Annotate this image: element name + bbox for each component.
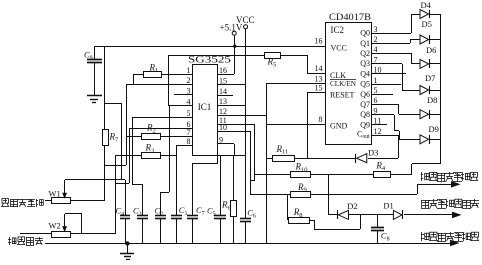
text duty cycle setting [2, 199, 9, 204]
ground (main) [125, 241, 129, 245]
wire Q2 to D6 [411, 53, 413, 64]
terminal VCC [244, 25, 248, 29]
text frequency setting [9, 237, 11, 245]
svg-text:CLK: CLK [330, 71, 346, 80]
svg-text:Q3: Q3 [360, 59, 370, 68]
svg-text:5: 5 [187, 109, 191, 118]
wire ground net vertical x=266.5 [266, 83, 268, 243]
wire pin15 lead to VCC vert [217, 84, 246, 86]
wire Q1 to D5 [410, 40, 412, 43]
svg-text:4: 4 [374, 45, 378, 54]
IC2 CD4017B body [326, 23, 372, 145]
wire R7 tap to C4 column [105, 103, 122, 105]
wire pin4 to oscillator top wire [168, 105, 192, 107]
pin 13 IC2 CLK/EN [266, 83, 325, 85]
diode D6 [411, 63, 420, 65]
svg-text:5: 5 [374, 86, 378, 95]
svg-text:Q2: Q2 [360, 49, 370, 58]
diode D4 [411, 14, 420, 16]
svg-text:D9: D9 [429, 124, 439, 134]
svg-text:4: 4 [187, 97, 191, 106]
wire R8 left up to pin11 net [287, 194, 289, 220]
op-amp U IC1 SG3525 body [193, 65, 218, 156]
wire Cout to D3 [398, 135, 400, 158]
pin 8 IC2 GND [266, 124, 325, 126]
svg-text:CLK/EN: CLK/EN [330, 80, 357, 88]
wire diode bus [440, 14, 442, 164]
wire pin3 stub [174, 94, 192, 96]
svg-text:14: 14 [315, 64, 323, 73]
svg-text:Q0: Q0 [360, 29, 370, 38]
wire W2 wiper loop [65, 213, 82, 215]
diode D2 [337, 210, 339, 219]
svg-text:SG3525: SG3525 [188, 56, 231, 66]
capacitor C4 [125, 180, 127, 215]
wire RESET vertical to D3 node [307, 92, 309, 158]
diode D7 [402, 90, 420, 92]
wire drive tap down to D2 row [328, 174, 330, 215]
pin 15 IC2 RESET [307, 92, 325, 94]
svg-text:IC1: IC1 [198, 102, 212, 112]
svg-text:VCC: VCC [331, 44, 347, 53]
wire pin13 lead to VCC vert [217, 105, 246, 107]
svg-text:2: 2 [187, 76, 191, 85]
wire pin6 RT [129, 128, 192, 130]
diode D1 [393, 210, 402, 219]
wire out1 riser [417, 184, 419, 194]
svg-text:1: 1 [187, 66, 191, 75]
wire pin12 ground lead [217, 115, 266, 117]
wire Q3 to D7 [402, 64, 404, 90]
wire ground rail out3 [45, 243, 451, 245]
svg-text:Q5: Q5 [360, 80, 370, 89]
svg-text:D5: D5 [422, 19, 432, 29]
svg-text:GND: GND [330, 121, 348, 130]
svg-text:Q8: Q8 [360, 110, 370, 119]
wire Q7 to D8 [398, 104, 400, 114]
wire pin9 lead [217, 143, 234, 145]
wire R5 to CLK [307, 55, 309, 73]
svg-text:7: 7 [187, 128, 191, 137]
svg-text:8: 8 [187, 137, 191, 146]
svg-text:Q1: Q1 [360, 39, 370, 48]
svg-text:2: 2 [374, 35, 378, 44]
wire R3/pin6 net down to W2 [115, 155, 117, 234]
wire pin2 long wire [126, 84, 192, 86]
wire R2 left col to 165 wire [126, 136, 128, 165]
pin 14 IC2 CLK [307, 73, 325, 75]
text out2 FET drain [421, 200, 423, 208]
wiper W2 [64, 214, 66, 227]
wire shelf below IC1 [217, 155, 246, 157]
junction +5.1V rail [233, 45, 236, 48]
svg-text:D3: D3 [368, 148, 378, 158]
wire pin2 net vertical x=126.5 [126, 84, 128, 165]
wire Q8 to D9 staircase [394, 115, 396, 131]
svg-text:6: 6 [374, 96, 378, 105]
svg-text:9: 9 [219, 135, 223, 144]
svg-text:Q7: Q7 [360, 100, 370, 109]
svg-text:13: 13 [315, 75, 323, 84]
text out3 FET gate drive [421, 232, 423, 241]
svg-text:12: 12 [374, 127, 382, 136]
svg-text:1: 1 [374, 76, 378, 85]
svg-text:D8: D8 [427, 95, 437, 105]
wire +5.1V vertical to rail and pin16 [234, 35, 236, 74]
svg-text:IC2: IC2 [331, 25, 345, 35]
capacitor C8 [377, 215, 379, 227]
svg-text:+5.1V: +5.1V [220, 23, 243, 33]
svg-text:8: 8 [319, 115, 323, 124]
svg-text:D2: D2 [347, 201, 357, 211]
svg-text:Q9: Q9 [360, 120, 370, 129]
svg-text:Q6: Q6 [360, 90, 370, 99]
wire pin16 lead [217, 74, 234, 76]
wire Q0 to D4 [411, 14, 413, 33]
svg-text:D1: D1 [383, 201, 393, 211]
wire W1 wiper wire y=177.5 [65, 179, 125, 181]
wire pin5 CT [132, 117, 192, 119]
wire out1 arrow line [417, 184, 452, 186]
capacitor C3 [142, 184, 144, 215]
capacitor C2 [169, 106, 171, 192]
ground (C9) [87, 95, 102, 97]
capacitor C7 [217, 155, 219, 164]
svg-text:RESET: RESET [330, 91, 355, 100]
wiper W1 [64, 180, 66, 194]
resistor R5 [265, 53, 281, 59]
wire pin10 lead [217, 131, 250, 133]
svg-text:W2: W2 [49, 220, 61, 230]
wire R1 drop to pin2 net [133, 74, 135, 84]
svg-text:16: 16 [315, 37, 323, 46]
svg-text:12: 12 [219, 107, 227, 116]
svg-text:3: 3 [374, 25, 378, 34]
resistor R7 [104, 46, 106, 130]
resistor R6 [233, 155, 235, 200]
text out1 FET gate drive [421, 172, 423, 181]
capacitor C5 [220, 155, 222, 215]
capacitor C6 [240, 218, 251, 220]
wire R8 right jog to D2 row [314, 220, 316, 229]
diode D8 [399, 114, 420, 116]
terminal +5.1V [232, 31, 236, 35]
diode D9 [399, 139, 420, 141]
diode D5 [410, 39, 420, 41]
svg-text:13: 13 [219, 97, 227, 106]
wire pin11 lead [217, 124, 255, 126]
diode D3 [368, 158, 398, 160]
wire pin8 jog [176, 145, 192, 147]
capacitor C1 [171, 215, 182, 217]
svg-text:16: 16 [219, 66, 227, 75]
wire osc to R5 y=54.7 [168, 55, 264, 57]
wire VCC vertical x=245.6 down to C6 [245, 29, 247, 218]
svg-text:14: 14 [219, 87, 227, 96]
svg-text:15: 15 [219, 76, 227, 85]
svg-text:CD4017B: CD4017B [329, 13, 371, 23]
svg-text:W1: W1 [49, 188, 61, 198]
svg-text:Q4: Q4 [360, 69, 370, 78]
svg-text:15: 15 [315, 84, 323, 93]
wire +5.1V rail y=46 [94, 46, 325, 48]
svg-text:D6: D6 [426, 45, 436, 55]
wire out2 row [328, 214, 338, 216]
svg-text:D7: D7 [425, 73, 435, 83]
svg-text:D4: D4 [421, 0, 432, 10]
wire pin14 IC1 stub [217, 95, 233, 97]
